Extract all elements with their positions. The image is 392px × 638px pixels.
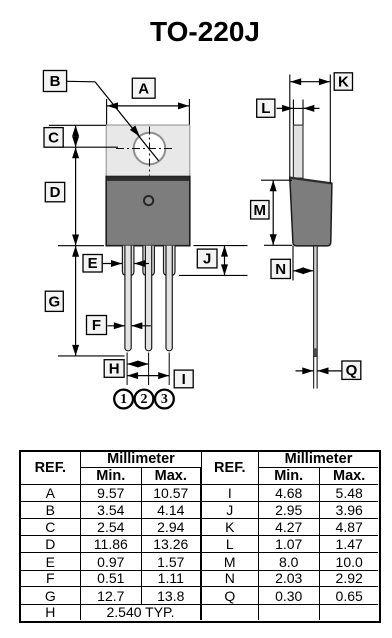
svg-text:Q: Q bbox=[346, 362, 358, 379]
svg-text:E: E bbox=[88, 255, 98, 272]
dimension E arrows bbox=[103, 263, 122, 265]
dimension C extension lines bbox=[49, 124, 106, 126]
svg-text:I: I bbox=[182, 371, 186, 388]
label box Q bbox=[342, 361, 361, 379]
dimension L arrows bbox=[293, 107, 303, 109]
body marking circle bbox=[144, 196, 153, 205]
dimension K arrow line bbox=[290, 81, 330, 83]
label box C bbox=[44, 128, 63, 148]
dimension F arrows bbox=[108, 325, 125, 327]
side view body bbox=[290, 178, 332, 246]
lead center extension lines for H and I bbox=[126, 353, 128, 386]
side view lead bbox=[314, 246, 318, 357]
side body top edge bbox=[290, 178, 332, 184]
svg-text:J: J bbox=[203, 251, 211, 268]
dimension I arrow line bbox=[127, 375, 169, 377]
label box J bbox=[197, 249, 217, 268]
hole crosshair horizontal bbox=[116, 148, 173, 150]
mounting hole bbox=[134, 133, 166, 165]
svg-text:2: 2 bbox=[141, 392, 148, 407]
pin number 1 bbox=[114, 390, 133, 409]
svg-text:B: B bbox=[50, 73, 61, 90]
label box E bbox=[83, 255, 102, 273]
lead 3 pin bbox=[166, 246, 172, 351]
dimension K extension lines bbox=[289, 75, 291, 178]
svg-text:D: D bbox=[50, 184, 61, 201]
dimension B leader bbox=[67, 80, 95, 83]
lead 2 flange bbox=[143, 246, 155, 276]
dimension A arrow line bbox=[107, 105, 189, 107]
dimension D arrow line bbox=[75, 147, 77, 245]
svg-text:L: L bbox=[261, 100, 270, 117]
svg-text:H: H bbox=[109, 361, 120, 378]
label box I bbox=[174, 370, 193, 388]
svg-text:1: 1 bbox=[120, 392, 127, 407]
front body top dark strip bbox=[107, 177, 190, 181]
dimension Q extension lines bbox=[313, 357, 315, 389]
side lead tip bbox=[314, 348, 318, 356]
side view tab bbox=[293, 125, 303, 178]
dimension J extension lines bbox=[194, 245, 248, 247]
lead 1 flange bbox=[122, 246, 133, 276]
label box L bbox=[257, 99, 275, 117]
dimension J arrow line bbox=[224, 246, 226, 276]
svg-text:3: 3 bbox=[161, 392, 168, 407]
dimension N arrow line bbox=[293, 270, 313, 272]
label box B bbox=[43, 71, 66, 92]
front view body bbox=[106, 177, 190, 246]
lead 2 pin bbox=[145, 246, 151, 351]
label box N bbox=[271, 259, 290, 278]
dimension L extension lines bbox=[292, 100, 294, 125]
dimension G extension lines bbox=[58, 245, 104, 247]
dimension M extension lines bbox=[261, 179, 292, 181]
label box F bbox=[87, 316, 107, 335]
svg-text:C: C bbox=[48, 130, 59, 147]
pin number 3 bbox=[155, 390, 174, 409]
label box K bbox=[334, 73, 352, 91]
dimension C arrow line bbox=[75, 125, 77, 147]
label box G bbox=[45, 291, 63, 311]
svg-text:N: N bbox=[275, 261, 286, 278]
dimension table bbox=[19, 450, 382, 623]
svg-text:M: M bbox=[254, 202, 267, 219]
front view tab bbox=[106, 125, 190, 177]
svg-text:K: K bbox=[338, 74, 349, 91]
label box A bbox=[132, 78, 155, 98]
dimension N extension line bbox=[292, 246, 294, 281]
dimension M arrow line bbox=[272, 180, 274, 245]
pin number 2 bbox=[135, 390, 154, 409]
hole crosshair vertical bbox=[149, 127, 151, 176]
dimension Q arrows bbox=[296, 370, 314, 372]
svg-text:A: A bbox=[138, 80, 149, 97]
svg-text:F: F bbox=[92, 317, 101, 334]
dimension G arrow line bbox=[75, 246, 77, 356]
label box D bbox=[45, 182, 64, 201]
title TO-220J bbox=[0, 16, 392, 48]
lead 1 pin bbox=[125, 246, 131, 351]
dimension A extension lines bbox=[106, 99, 108, 125]
label box H bbox=[104, 360, 124, 378]
svg-text:G: G bbox=[48, 293, 60, 310]
label box M bbox=[251, 201, 269, 220]
lead 3 flange bbox=[164, 246, 176, 276]
dimension H arrow line bbox=[127, 363, 149, 365]
